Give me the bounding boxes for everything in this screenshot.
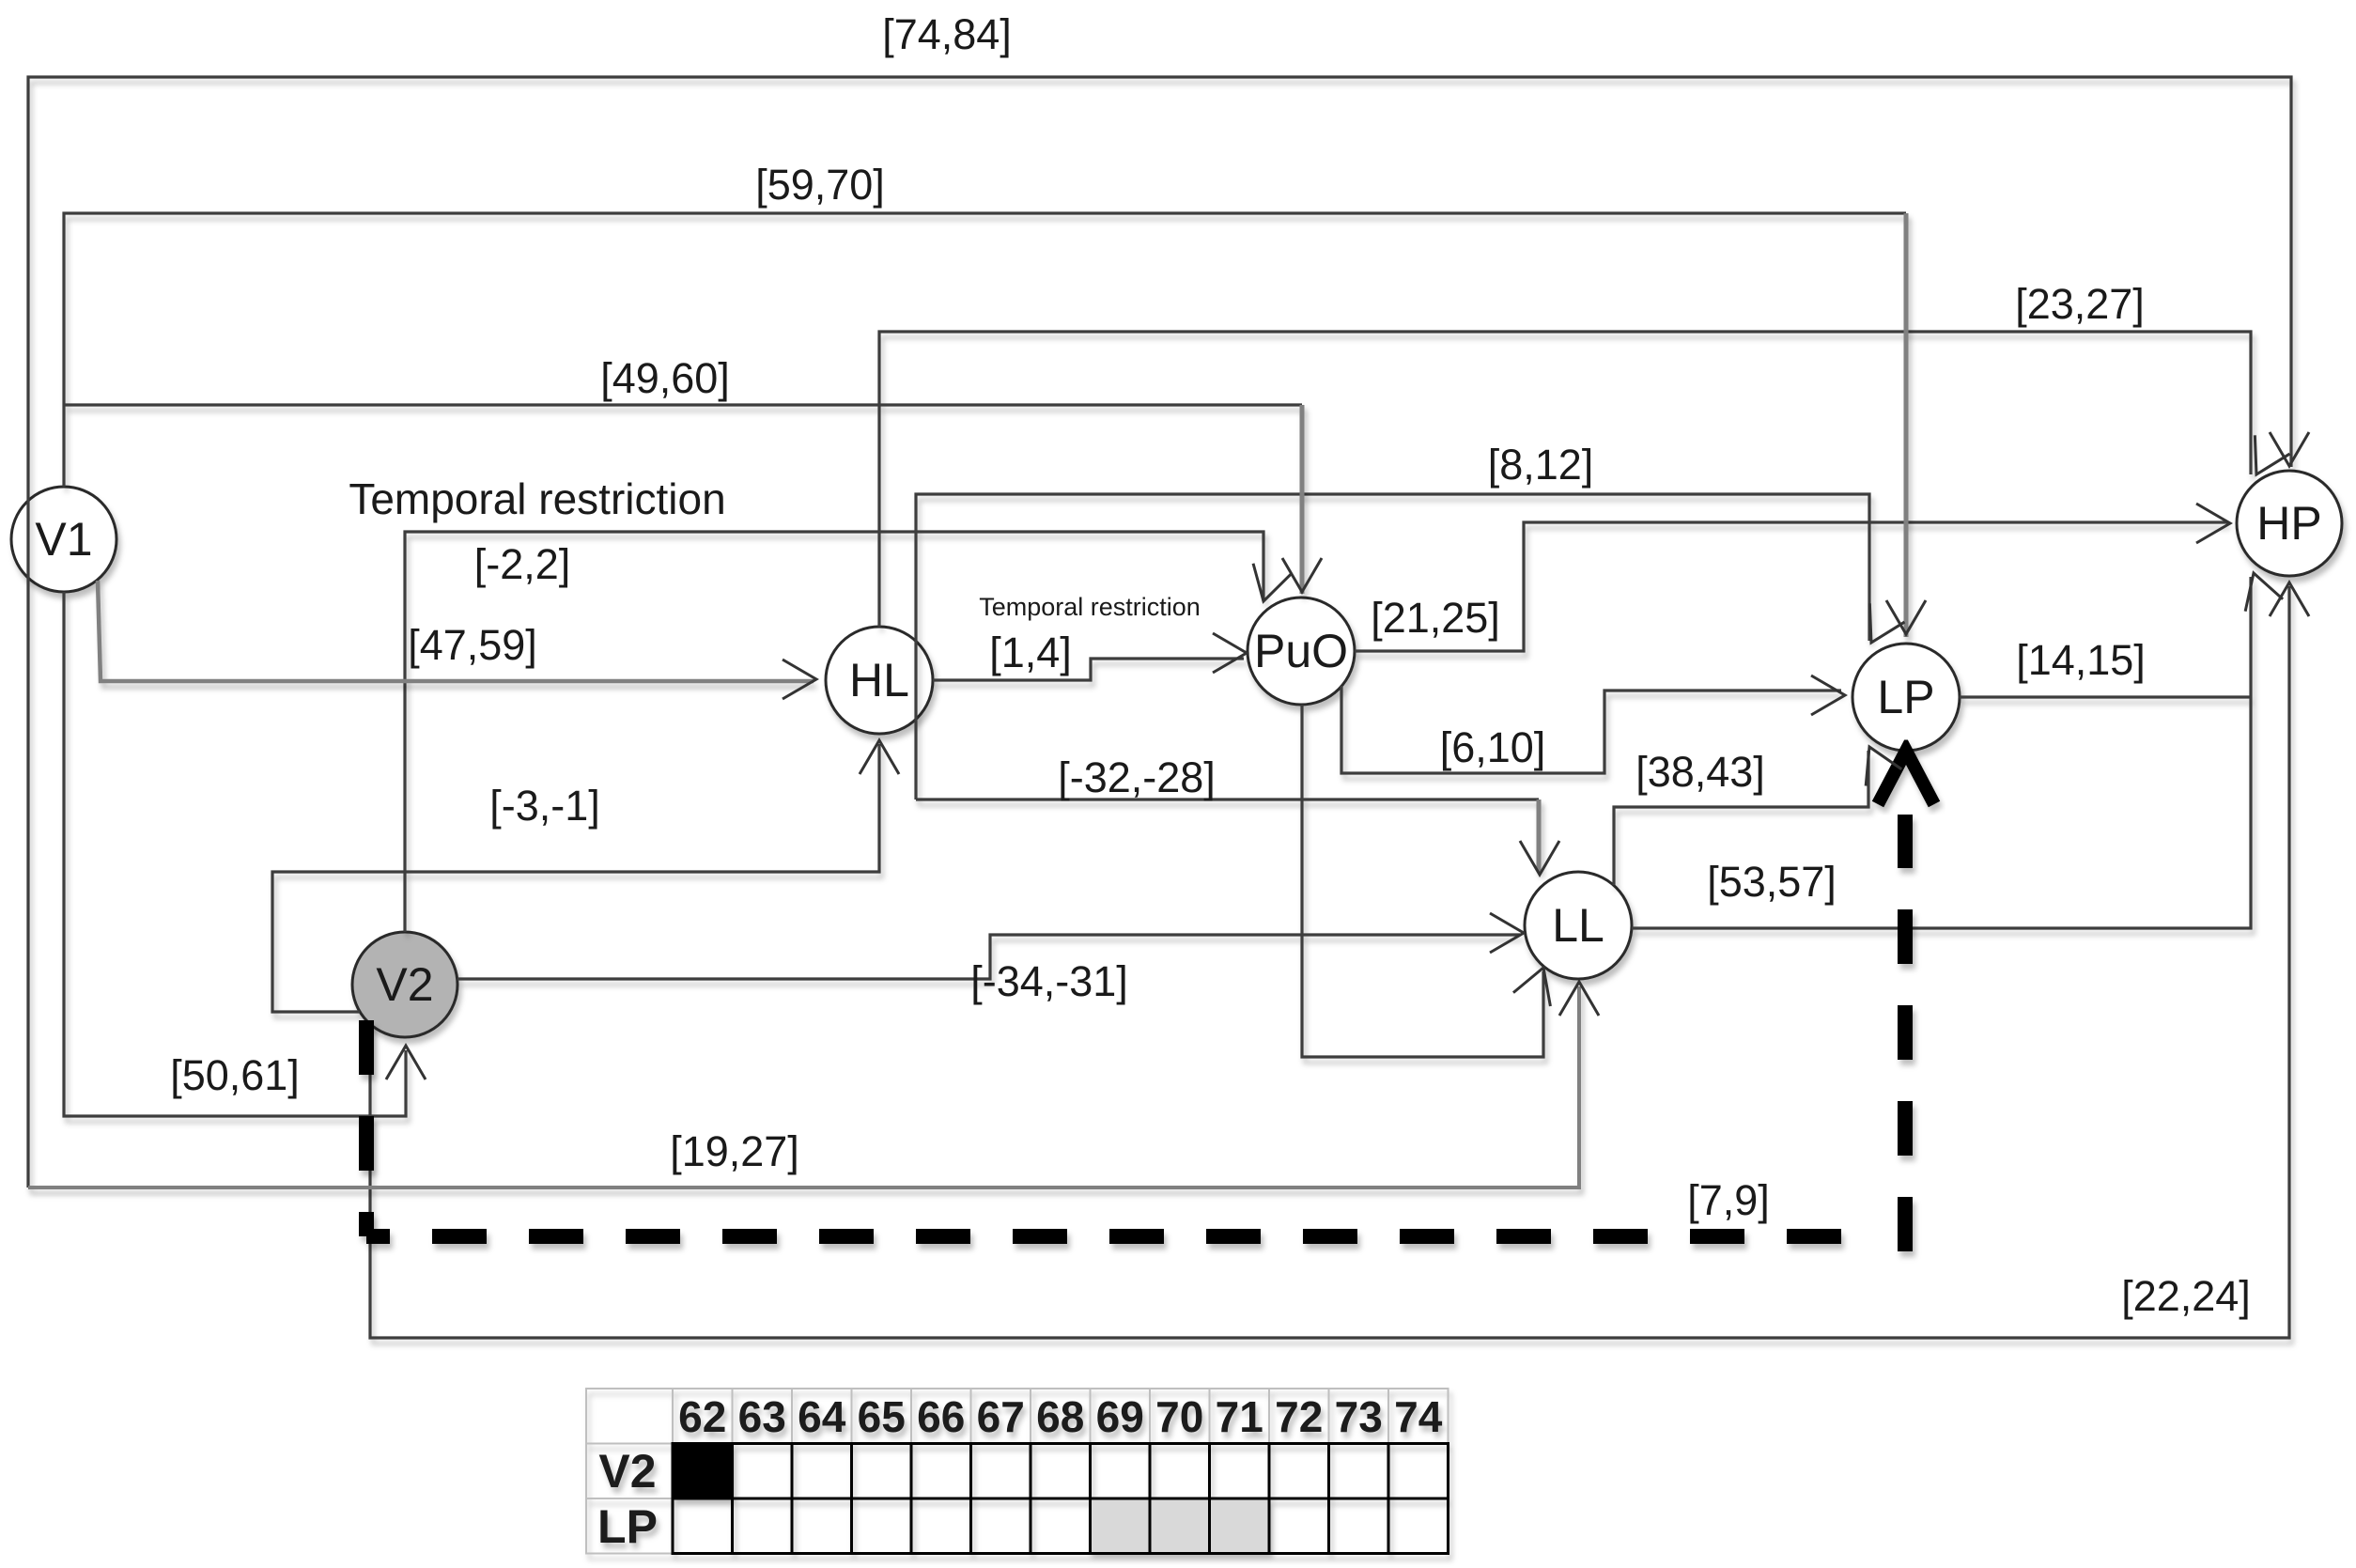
wire PuO->HP [21,25] (1355, 522, 2227, 651)
wire HL->HP [23,27] (879, 332, 2251, 627)
node PuO (1248, 598, 1355, 705)
wire PuO->LP [6,10] (1341, 686, 1841, 773)
svg-text:[8,12]: [8,12] (1488, 441, 1594, 489)
table header row 62-74 (678, 1392, 1443, 1441)
arrowheads (thin chevrons) (386, 432, 2309, 1079)
wire V1->HP [74,84] top line (28, 77, 2291, 1188)
arrow into HL left (783, 660, 816, 699)
table cell fills LP-69..71 gray (1091, 1498, 1270, 1554)
arrow into V2 bottom (386, 1046, 426, 1079)
svg-text:HP: HP (2256, 497, 2321, 550)
wire V1->LP [59,70] drop (1904, 213, 1909, 637)
arrow into LL bottom (1559, 982, 1599, 1016)
table row labels V2 / LP (597, 1445, 658, 1553)
arrow into PuO left (1213, 633, 1247, 673)
wire V1->PuO [49,60] drop (1300, 405, 1305, 594)
svg-text:[21,25]: [21,25] (1371, 594, 1500, 642)
svg-text:LP: LP (597, 1500, 658, 1553)
svg-text:[14,15]: [14,15] (2016, 636, 2146, 684)
wire V1->V2 [50,61] (64, 592, 406, 1116)
wire V2->PuO [-2,2] (405, 532, 1263, 932)
svg-text:LL: LL (1552, 899, 1604, 952)
node HP (2237, 471, 2342, 576)
arrow into PuO top (1282, 558, 1322, 592)
wire LP->HP [14,15] (1960, 695, 2251, 698)
arrow into PuO top-left (1245, 564, 1292, 607)
wire LL->LP [38,43] (1614, 751, 1868, 885)
svg-text:HL: HL (849, 654, 909, 706)
edge labels (170, 10, 2251, 1320)
arrow into LP bottom-left (1852, 738, 1901, 785)
svg-text:67: 67 (977, 1392, 1025, 1441)
arrow into HP bottom-left (2235, 567, 2283, 612)
svg-text:[19,27]: [19,27] (670, 1127, 799, 1175)
node labels (35, 497, 2321, 1011)
table cell fill V2-62 black (673, 1444, 733, 1499)
svg-text:Temporal restriction: Temporal restriction (349, 474, 725, 523)
dashed wire V2->LP [7,9] (366, 815, 1905, 1251)
node HL (826, 627, 933, 734)
svg-text:[-32,-28]: [-32,-28] (1058, 753, 1216, 801)
svg-text:[6,10]: [6,10] (1440, 723, 1546, 771)
arrow into HP top-left (2239, 435, 2289, 484)
dashed segment up to LP (1898, 815, 1913, 1251)
svg-text:[38,43]: [38,43] (1635, 748, 1765, 796)
wire HL->LP [8,12] (916, 494, 1869, 800)
arrow into HL bottom (860, 740, 899, 774)
svg-text:[53,57]: [53,57] (1707, 858, 1837, 906)
svg-text:[-34,-31]: [-34,-31] (970, 957, 1128, 1005)
svg-text:[7,9]: [7,9] (1687, 1176, 1770, 1224)
svg-text:71: 71 (1216, 1392, 1263, 1441)
svg-text:70: 70 (1155, 1392, 1203, 1441)
wire V1->LL [19,27] (28, 986, 1579, 1188)
arrow into LP top (1886, 600, 1926, 634)
svg-text:[59,70]: [59,70] (755, 161, 885, 209)
svg-text:V1: V1 (35, 513, 92, 566)
dashed segment V2 down (359, 1020, 374, 1236)
arrow into HP bottom-right (2270, 582, 2309, 616)
svg-text:73: 73 (1335, 1392, 1383, 1441)
wire HL->LL [-32,-28] (916, 798, 1539, 800)
gray connector segments (28, 213, 1906, 1188)
svg-text:[74,84]: [74,84] (882, 10, 1012, 58)
node V1 (11, 487, 116, 592)
arrow into LP left (1811, 675, 1845, 715)
svg-text:[47,59]: [47,59] (408, 621, 537, 669)
wire HL->LL [-32,-28] drop (1537, 800, 1542, 872)
svg-text:74: 74 (1394, 1392, 1443, 1441)
big arrowhead into LP (1878, 751, 1934, 804)
wire V2->HL [-3,-1] (272, 744, 879, 1012)
svg-text:62: 62 (678, 1392, 726, 1441)
table (586, 1389, 1449, 1554)
table black grid (673, 1444, 1449, 1554)
arrow into HP left (2196, 504, 2230, 543)
svg-text:[22,24]: [22,24] (2121, 1272, 2251, 1320)
svg-text:[-3,-1]: [-3,-1] (489, 782, 600, 830)
svg-text:64: 64 (798, 1392, 846, 1441)
svg-text:66: 66 (917, 1392, 965, 1441)
svg-text:63: 63 (738, 1392, 786, 1441)
wire V2->LL [-34,-31] (457, 935, 1520, 979)
svg-text:72: 72 (1275, 1392, 1323, 1441)
wire HL->PuO [1,4] (933, 659, 1244, 680)
arrow into LP top-left (1853, 603, 1904, 652)
wire V1->LP [59,70] (64, 213, 1906, 487)
arrow into LL top-left (1520, 841, 1559, 875)
node LL (1525, 872, 1632, 979)
svg-text:[50,61]: [50,61] (170, 1051, 300, 1099)
arrow into HP top (2270, 432, 2309, 466)
node V2 (352, 932, 457, 1037)
svg-text:PuO: PuO (1254, 625, 1348, 677)
wire LL->HP [53,57] (1632, 577, 2251, 928)
svg-text:[-2,2]: [-2,2] (474, 540, 571, 588)
svg-text:68: 68 (1036, 1392, 1084, 1441)
arrow into LL bottom-left (1513, 961, 1562, 1006)
svg-text:[49,60]: [49,60] (600, 354, 730, 402)
wire PuO->LL (1302, 705, 1543, 1057)
svg-text:[1,4]: [1,4] (989, 629, 1072, 676)
svg-text:V2: V2 (598, 1445, 656, 1498)
wire V1->PuO [49,60] (64, 403, 1302, 406)
svg-text:69: 69 (1096, 1392, 1144, 1441)
svg-text:Temporal restriction: Temporal restriction (979, 593, 1201, 621)
arrow into LL left (1490, 913, 1524, 953)
dashed segment bottom horizontal (366, 1229, 1874, 1244)
wire V1->HL [47,59] (98, 581, 814, 681)
svg-text:[23,27]: [23,27] (2015, 280, 2145, 328)
node LP (1852, 644, 1960, 751)
node circles (11, 471, 2342, 1037)
svg-text:V2: V2 (376, 958, 433, 1011)
table light grid (586, 1389, 1449, 1554)
svg-text:65: 65 (858, 1392, 906, 1441)
wire V2->HP [22,24] (370, 586, 2289, 1338)
svg-text:LP: LP (1877, 671, 1934, 723)
